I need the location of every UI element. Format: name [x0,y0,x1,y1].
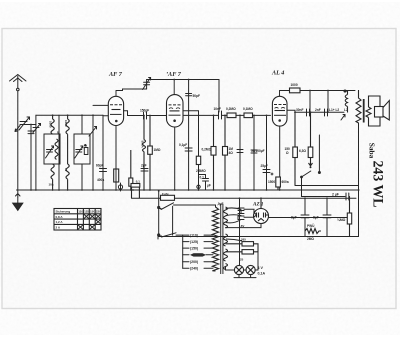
cap 25uF [263,115,273,190]
svg-text:’AF 7: ’AF 7 [166,71,182,78]
wire V2 cathode [174,127,176,190]
wire V2 anode out [183,111,199,190]
resistor 1/4M [347,197,351,237]
cap 2uF top wire [302,193,350,200]
svg-text:10nF: 10nF [214,107,221,111]
resistor 1500 [276,177,281,190]
wire drop x240 [237,115,243,190]
svg-text:265: 265 [241,238,246,242]
coil L1 [51,115,54,134]
HT to rectifier caps [226,208,254,223]
dial lamp 2 [246,265,255,274]
trimmer a [84,143,88,155]
svg-text:1000: 1000 [291,83,298,87]
svg-text:2,5MΩ: 2,5MΩ [196,169,206,173]
resistor 400 [114,169,119,182]
svg-text:PWÜ: PWÜ [307,223,315,228]
resistor 1M vertical [223,115,228,190]
wire grid line y115 [36,114,103,116]
svg-text:Ω: Ω [286,151,289,155]
pickup terminal [197,185,200,188]
svg-text:30nF: 30nF [296,108,303,112]
svg-text:(240): (240) [190,267,198,271]
variable cap in tank1 [46,146,54,158]
svg-text:¼MΩ: ¼MΩ [337,218,346,222]
heater wire to lamps [226,198,259,277]
svg-text:0,1MΩ: 0,1MΩ [243,107,253,111]
svg-text:220: 220 [96,210,101,214]
coil L2 [66,115,69,164]
svg-text:8µF: 8µF [313,216,319,220]
node dot [30,124,32,126]
tube V1 AF7 [108,91,123,126]
tank2 feed [81,115,83,134]
fuse FuSi [161,195,175,200]
voltage selector taps [183,235,189,268]
voltage table [54,209,101,231]
resistor 1000 [290,88,301,93]
svg-text:1000: 1000 [64,120,68,127]
svg-text:10a: 10a [49,183,54,187]
mains bus [132,197,357,199]
AZ1 return loop [226,224,262,228]
transformer core [221,204,223,274]
svg-text:0,2MΩ: 0,2MΩ [202,148,212,152]
cap 0,1uF V2 [185,148,192,151]
chassis bus [17,189,360,191]
cap 30nF [307,109,310,116]
branch 0,1uF cap [199,175,209,191]
table header text [56,210,102,230]
cap 8uF no1 [301,198,309,236]
wire drop x328 [327,91,329,113]
resistor 1M [148,116,153,191]
switch contact wire [318,135,320,174]
wire anode box V1 [116,89,147,91]
svg-text:0,1: 0,1 [136,180,140,184]
wire x59 [58,115,60,190]
cap 2uF [141,169,148,172]
wire drop x254 [251,115,257,190]
wire from field coil [358,123,360,237]
tube V3 AL4 [272,91,287,127]
variable cap tank2 [75,146,83,158]
dial lamp 1 [234,265,243,274]
svg-text:1000: 1000 [49,121,53,128]
heater resistors [226,239,259,254]
coil in tank1 [55,139,58,159]
svg-text:500A: 500A [140,141,144,149]
svg-text:1500: 1500 [268,180,275,184]
transformer core bar [363,99,365,123]
resistor 0,2M [196,156,200,164]
svg-text:2nF: 2nF [315,108,321,112]
wire branch with trimmer [33,115,41,190]
svg-text:2 µF: 2 µF [332,193,339,197]
svg-text:50pF: 50pF [193,94,200,98]
svg-text:150: 150 [90,210,95,214]
resistor bias [129,150,133,190]
coil L1 lower [51,164,54,190]
svg-text:0,1µF: 0,1µF [179,143,187,147]
ground [13,190,24,211]
svg-text:243 WL: 243 WL [370,161,386,208]
rectifier output wire [269,217,350,219]
svg-text:AL 4: AL 4 [271,70,284,77]
cap 10nF [219,111,222,119]
cap 8uF no2 [323,198,331,236]
secondary zigzag [366,107,371,118]
svg-text:25µF: 25µF [261,164,268,168]
mains switch [158,191,216,237]
resistor 0,2M series [227,113,236,118]
svg-text:150pF: 150pF [140,109,149,113]
wire V1 anode out [124,111,128,116]
svg-text:60pF: 60pF [96,164,103,168]
wire V1 grid stubs [93,105,108,115]
svg-text:2µF: 2µF [141,164,147,168]
tone switch [301,171,311,197]
svg-text:(150): (150) [190,247,198,251]
svg-text:600a: 600a [282,180,289,184]
secondary HT winding [224,207,228,228]
rectifier tube AZ1 [254,198,269,223]
tank2 to bus [81,164,83,190]
svg-text:8µF: 8µF [291,216,297,220]
svg-text:2MΩ: 2MΩ [307,237,314,241]
antenna trimmer capacitor [15,117,30,132]
svg-text:6,3Ω: 6,3Ω [299,149,306,153]
secondary heater winding [224,249,228,261]
wire drop x310 [309,91,311,113]
tone wire [287,110,344,112]
svg-text:4Ω: 4Ω [229,151,234,155]
antenna [10,75,27,91]
heater pilot resistor on mains entry [131,184,140,199]
tap wires [204,235,213,268]
secondary winding 2 [224,234,228,246]
svg-text:FuSi: FuSi [162,192,169,196]
svg-text:0,1A: 0,1A [258,272,266,276]
svg-text:110: 110 [78,210,83,214]
secondary winding 4 [224,264,228,270]
speaker [369,96,390,126]
output transformer primary coil [344,90,348,113]
coil 500A [143,116,146,191]
cap 2nF [325,109,328,116]
wire top of input tank [24,124,36,126]
svg-text:34: 34 [56,131,60,135]
tube V2 AF7 [167,80,184,128]
wire speaker return [295,185,359,187]
resistor PWUe zigzag [305,229,321,234]
junction dots on buses [30,79,359,200]
wire x103 with cap [100,115,107,190]
coil L2 lower [66,164,69,190]
coupling wire with cap 150pF [144,112,147,119]
resistor 0,1M series [244,113,253,118]
detector chain wire [128,114,271,116]
wire V1 cathode [115,126,117,191]
capacitor antenna series [28,125,34,191]
resistor 630 [308,112,313,168]
svg-text:(200): (200) [190,260,198,264]
svg-text:µF: µF [207,184,211,188]
svg-text:AZ 1: AZ 1 [252,202,264,208]
volume trimmer on rail [143,78,151,90]
svg-text:Saba: Saba [367,143,376,159]
selector 220 tap [190,253,206,256]
svg-text:1MΩ: 1MΩ [154,148,161,152]
wire V3 cathode [279,126,281,190]
svg-text:,0µF: ,0µF [217,202,223,206]
svg-text:1,2 A: 1,2 A [56,220,64,224]
wire top rail [147,79,219,81]
speaker field coil zigzag [356,90,361,123]
primary top wire [215,205,217,207]
svg-text:(125): (125) [190,240,198,244]
svg-text:125: 125 [84,210,89,214]
resistor 0,2M vertical [211,115,216,190]
switch arm wave switch [89,115,97,190]
svg-text:4 V: 4 V [258,266,264,270]
svg-text:72: 72 [64,168,68,172]
anode wire [280,90,356,92]
wire antenna mast [17,91,19,190]
svg-text:400a: 400a [97,178,104,182]
svg-text:Sicherung: Sicherung [56,210,71,214]
svg-text:25: 25 [240,258,244,262]
svg-text:L1+ L2: L1+ L2 [329,108,339,112]
svg-text:AF 7: AF 7 [108,71,123,78]
svg-text:0,1: 0,1 [200,176,205,180]
wire drop from rail [218,80,220,113]
resistor 150 [293,112,298,185]
power ground bus [158,237,359,240]
pilot terminal circle [118,183,122,191]
svg-text:0,2MΩ: 0,2MΩ [226,107,236,111]
tank1 box [44,134,60,164]
tap arrow L2 [341,115,345,121]
tank2 box [74,134,90,164]
cap 50pF [186,80,192,191]
power transformer primary [212,207,218,271]
svg-text:0,8 A: 0,8 A [56,215,64,219]
table X marks [78,214,100,229]
